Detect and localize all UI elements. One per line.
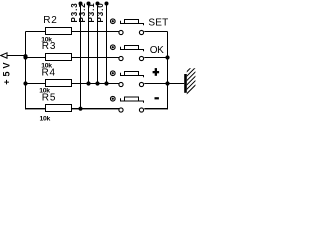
wire row3 left <box>26 83 46 85</box>
node +5V junction <box>23 54 27 58</box>
switch SET <box>111 19 144 35</box>
wire row4 left <box>25 108 46 109</box>
wire row1 left <box>26 31 46 33</box>
node right bus row2 <box>165 55 169 59</box>
wire row1 to right bus <box>144 31 167 33</box>
resistor R4 <box>46 80 72 87</box>
wire P3.0 vertical <box>106 4 108 84</box>
svg-text:R2: R2 <box>43 15 57 26</box>
wire row2 left <box>26 57 46 59</box>
wire P3.1 vertical <box>97 4 99 84</box>
node left bus row3 <box>23 81 27 85</box>
node header dot P3.2 <box>87 2 91 6</box>
svg-text:P3.0: P3.0 <box>96 2 105 22</box>
power +5V arrow <box>1 53 7 58</box>
svg-text:OK: OK <box>150 45 164 56</box>
svg-text:10k: 10k <box>40 116 51 123</box>
wire row3 middle <box>72 83 120 85</box>
node P3.3 junction <box>78 107 82 111</box>
wire row1 middle <box>72 31 120 33</box>
switch OK <box>111 45 144 61</box>
node right bus row3 <box>165 81 169 85</box>
wire left bus <box>25 32 27 110</box>
switch plus <box>111 71 144 87</box>
svg-text:R3: R3 <box>42 41 56 52</box>
svg-text:P3.2: P3.2 <box>78 2 87 22</box>
svg-text:SET: SET <box>148 17 168 28</box>
wire row2 middle <box>72 57 120 59</box>
label plus <box>153 68 160 76</box>
node header dot P3.1 <box>96 2 100 6</box>
svg-text:P3.1: P3.1 <box>87 2 96 22</box>
label minus <box>155 97 159 99</box>
ground <box>181 57 201 99</box>
node left bus row2 <box>23 55 27 59</box>
resistor R2 <box>46 28 72 35</box>
svg-text:R4: R4 <box>42 68 56 79</box>
wire right bus <box>167 32 169 110</box>
svg-text:+5V: +5V <box>1 59 11 84</box>
wire +5V feed <box>7 55 26 57</box>
node header dot P3.3 <box>79 2 83 6</box>
svg-text:R5: R5 <box>42 92 56 103</box>
switch minus <box>111 96 144 112</box>
wire row4 to right bus <box>144 108 168 109</box>
wire P3.2 vertical <box>88 4 90 84</box>
resistor R3 <box>46 54 72 61</box>
wire P3.3 vertical <box>80 4 82 110</box>
node P3.1 junction <box>95 81 99 85</box>
node header dot P3.0 <box>105 2 109 6</box>
resistor R5 <box>46 105 72 112</box>
node P3.2 junction <box>86 81 90 85</box>
wire row3 to right bus <box>144 83 167 85</box>
wire to ground <box>168 83 185 85</box>
node P3.0 junction <box>104 81 108 85</box>
wire row2 to right bus <box>144 57 167 59</box>
wire row4 middle <box>72 108 120 109</box>
